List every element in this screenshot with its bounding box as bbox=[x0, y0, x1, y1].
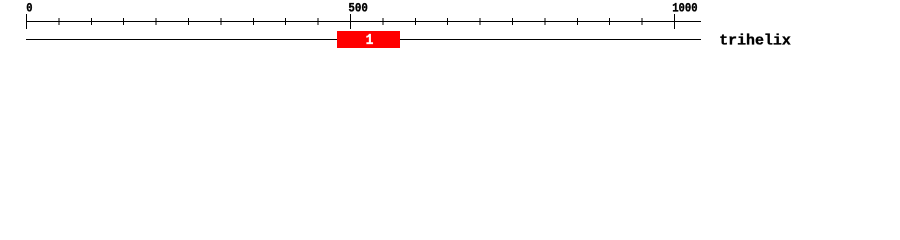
ruler minor tick 800 bbox=[544, 18, 545, 25]
ruler minor tick 700 bbox=[480, 18, 481, 25]
ruler minor tick 900 bbox=[609, 18, 610, 25]
svg-text:1: 1 bbox=[366, 33, 374, 49]
ruler minor tick 600 bbox=[415, 18, 416, 25]
domain box 1 (trihelix domain, red) bbox=[337, 31, 400, 48]
background bbox=[0, 0, 900, 58]
ruler minor tick 750 bbox=[512, 18, 513, 25]
sequence line bbox=[26, 39, 701, 40]
ruler minor tick 650 bbox=[447, 18, 448, 25]
ruler minor tick 850 bbox=[577, 18, 578, 25]
ruler minor tick 400 bbox=[285, 18, 286, 25]
ruler minor tick 550 bbox=[382, 18, 383, 25]
ruler major tick 0 bbox=[26, 14, 27, 29]
ruler minor tick 50 bbox=[58, 18, 59, 25]
ruler minor tick 450 bbox=[318, 18, 319, 25]
ruler minor tick 950 bbox=[642, 18, 643, 25]
protein domain ruler diagram bbox=[0, 0, 900, 58]
ruler minor tick 200 bbox=[156, 18, 157, 25]
svg-text:1000: 1000 bbox=[672, 1, 698, 16]
ruler major tick 1000 bbox=[674, 14, 675, 29]
ruler minor tick 350 bbox=[253, 18, 254, 25]
ruler major tick 500 bbox=[350, 14, 351, 29]
ruler minor tick 250 bbox=[188, 18, 189, 25]
ruler minor tick 150 bbox=[123, 18, 124, 25]
ruler minor tick 100 bbox=[91, 18, 92, 25]
svg-text:500: 500 bbox=[348, 1, 368, 16]
ruler axis line bbox=[26, 21, 701, 22]
svg-text:trihelix: trihelix bbox=[719, 33, 791, 50]
svg-text:0: 0 bbox=[26, 1, 32, 16]
ruler minor tick 300 bbox=[220, 18, 221, 25]
